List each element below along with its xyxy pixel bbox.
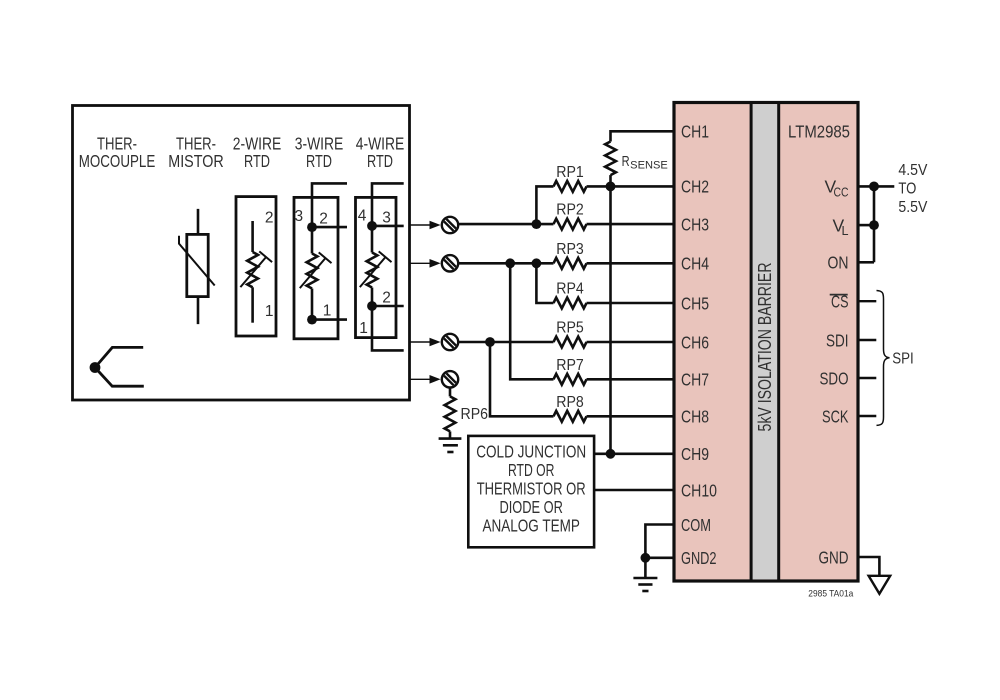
resistor RP1 (536, 164, 674, 224)
resistor RP3 (458, 241, 674, 269)
resistor RP7 (510, 263, 674, 384)
svg-text:2: 2 (319, 211, 328, 228)
resistor RP5 (458, 320, 674, 348)
wire CS stub (858, 300, 876, 302)
svg-text:CH9: CH9 (681, 444, 709, 464)
junction at CH2 (606, 182, 616, 192)
svg-text:CH6: CH6 (681, 332, 709, 352)
svg-text:SCK: SCK (822, 406, 849, 426)
wire supply vertical (873, 186, 876, 262)
svg-text:RP7: RP7 (556, 357, 584, 374)
label THERMOCOUPLE (79, 134, 156, 172)
label THERMISTOR (168, 134, 224, 172)
long vertical sense bus (609, 186, 612, 453)
ground GND chassis triangle (869, 576, 891, 594)
svg-text:CH4: CH4 (681, 254, 709, 274)
svg-text:4: 4 (358, 208, 367, 225)
junction VL (869, 220, 879, 230)
svg-text:CH1: CH1 (681, 122, 709, 142)
wire SDO stub (858, 377, 876, 379)
svg-text:GND: GND (819, 547, 849, 567)
label 4.5V TO 5.5V (898, 162, 928, 216)
wire VL stub (858, 224, 874, 227)
label 2-WIRE RTD (233, 134, 282, 172)
svg-text:ON: ON (828, 253, 849, 273)
pin CS with overline (830, 292, 849, 312)
junction at CH9 (606, 449, 616, 459)
svg-text:CH7: CH7 (681, 370, 709, 390)
SPI brace (877, 291, 890, 426)
svg-text:RP1: RP1 (556, 164, 584, 181)
resistor RP6 (445, 388, 488, 439)
junction VCC (869, 182, 879, 192)
svg-text:CH5: CH5 (681, 293, 709, 313)
svg-text:5.5V: 5.5V (898, 199, 928, 216)
pin VCC (825, 177, 849, 200)
screw terminal 2 (442, 255, 459, 272)
wire CH9 (594, 452, 674, 455)
wire COM to GND2 (645, 525, 674, 558)
svg-text:RP3: RP3 (556, 241, 584, 258)
svg-text:2: 2 (265, 210, 274, 227)
svg-text:SDO: SDO (820, 368, 849, 388)
svg-text:1: 1 (265, 303, 274, 320)
junction RP1/RP2 (532, 219, 542, 229)
svg-text:3: 3 (294, 208, 303, 225)
svg-text:CH8: CH8 (681, 407, 709, 427)
svg-text:COM: COM (681, 515, 711, 535)
resistor RP8 (490, 342, 674, 422)
LTM2985 module body (674, 103, 858, 582)
cold junction box (468, 436, 594, 547)
svg-text:THERMISTOR OR: THERMISTOR OR (477, 479, 586, 499)
arrow to terminal 2 (410, 259, 441, 268)
svg-text:CH10: CH10 (681, 480, 717, 500)
svg-text:3: 3 (382, 210, 391, 227)
svg-text:R: R (622, 153, 630, 170)
svg-text:MOCOUPLE: MOCOUPLE (79, 151, 156, 171)
3-wire RTD sensor (294, 183, 347, 338)
svg-text:5kV ISOLATION BARRIER: 5kV ISOLATION BARRIER (755, 262, 775, 431)
label 4-WIRE RTD (356, 134, 405, 172)
wire VCC supply (858, 185, 894, 188)
junction GND2 (641, 553, 651, 563)
ground below RP6 (439, 439, 462, 452)
wire SDI stub (858, 339, 876, 341)
screw terminal 3 (442, 334, 459, 351)
svg-text:SDI: SDI (826, 330, 849, 350)
svg-text:SPI: SPI (892, 351, 914, 368)
pin VL (833, 215, 849, 238)
wire GND (858, 557, 879, 576)
thermistor symbol (179, 209, 215, 324)
svg-text:RTD: RTD (367, 151, 393, 171)
ground GND2 (633, 558, 657, 591)
screw terminal 1 (442, 217, 459, 234)
junction RP3/RP4 (532, 258, 542, 268)
svg-text:L: L (842, 223, 849, 238)
svg-text:LTM2985: LTM2985 (788, 122, 850, 142)
resistor RP4 (536, 263, 674, 308)
svg-text:4.5V: 4.5V (898, 162, 928, 179)
svg-text:DIODE OR: DIODE OR (499, 497, 563, 517)
wire SCK stub (858, 415, 876, 417)
svg-text:RTD: RTD (244, 151, 270, 171)
svg-text:2: 2 (382, 290, 391, 307)
thermocouple symbol (90, 347, 144, 386)
svg-text:RTD: RTD (306, 151, 332, 171)
junction RP5/RP8 (485, 337, 495, 347)
svg-text:RP5: RP5 (556, 320, 584, 337)
2-wire RTD sensor (236, 197, 276, 336)
wire CH1 (611, 131, 675, 141)
svg-text:GND2: GND2 (681, 548, 717, 568)
svg-text:1: 1 (359, 320, 368, 337)
svg-text:CH3: CH3 (681, 214, 709, 234)
resistor RP2 (458, 202, 674, 230)
screw terminal 4 (442, 371, 459, 388)
5kV isolation barrier bar (750, 103, 780, 582)
svg-text:SENSE: SENSE (630, 159, 668, 171)
arrow to terminal 4 (410, 375, 441, 384)
svg-text:RP8: RP8 (556, 394, 584, 411)
svg-text:RP2: RP2 (556, 202, 584, 219)
resistor RSENSE (605, 142, 668, 187)
svg-text:RP4: RP4 (556, 281, 584, 298)
svg-text:2985 TA01a: 2985 TA01a (808, 589, 854, 600)
svg-text:RTD OR: RTD OR (508, 460, 555, 480)
wire ON stub (858, 261, 874, 264)
wire CH10 (594, 489, 674, 492)
junction RP3 left (505, 258, 515, 268)
svg-text:COLD JUNCTION: COLD JUNCTION (476, 442, 586, 462)
svg-text:ANALOG TEMP: ANALOG TEMP (482, 516, 580, 536)
svg-text:RP6: RP6 (461, 406, 489, 423)
svg-text:CH2: CH2 (681, 177, 709, 197)
svg-text:TO: TO (898, 181, 916, 198)
arrow to terminal 3 (410, 338, 441, 347)
svg-text:CC: CC (834, 184, 849, 199)
svg-text:MISTOR: MISTOR (168, 151, 224, 171)
sensor selection box (73, 106, 410, 401)
label 3-WIRE RTD (295, 134, 344, 172)
arrow to terminal 1 (410, 221, 441, 230)
4-wire RTD sensor (356, 183, 404, 350)
svg-text:1: 1 (323, 303, 332, 320)
